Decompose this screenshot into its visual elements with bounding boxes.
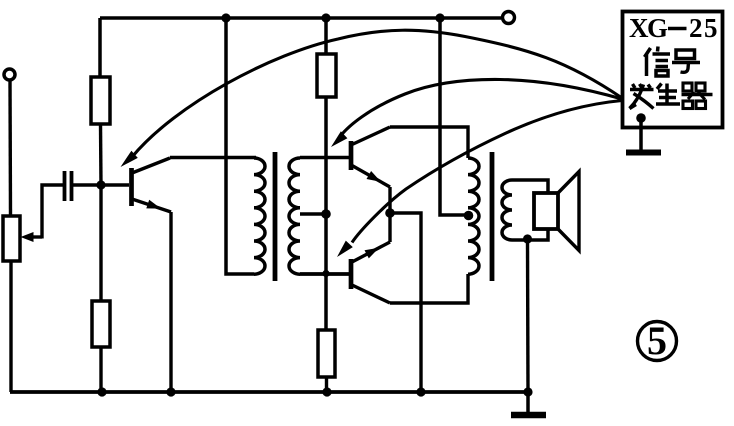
battery terminal circle xyxy=(503,12,515,24)
ground symbol xyxy=(511,392,546,415)
node center tap xyxy=(321,209,331,219)
resistor R1 xyxy=(91,77,110,124)
transistor Q1 xyxy=(132,158,172,212)
generator label 生 xyxy=(656,84,680,105)
wire base node to R3 xyxy=(99,185,102,301)
wire Q3 emitter to node xyxy=(388,213,391,242)
capacitor C1 xyxy=(65,171,72,201)
potentiometer RP xyxy=(3,216,20,261)
resistor R2 xyxy=(317,54,336,97)
wire speaker return to ground rail xyxy=(526,240,530,392)
svg-text:25: 25 xyxy=(689,13,719,43)
wire Q2 collector to T2 primary top xyxy=(390,127,468,158)
transformer T2 core xyxy=(490,152,495,281)
node speaker return xyxy=(523,234,532,243)
transformer T1 core xyxy=(273,152,278,281)
transformer T1 secondary winding xyxy=(289,158,300,274)
wire rail to T2 center tap xyxy=(440,18,466,215)
wire capacitor to Q1 base xyxy=(73,183,129,186)
top power rail xyxy=(100,16,501,20)
injection arrow arc 1 (to Q1 base) xyxy=(121,30,623,167)
resistor R4 xyxy=(318,330,335,377)
node rail-emitters xyxy=(416,387,425,396)
wire R1 to base node xyxy=(99,124,103,185)
transformer T1 primary winding xyxy=(254,158,265,274)
wire potentiometer to ground rail xyxy=(9,261,12,392)
node secondary bottom crossing xyxy=(322,270,329,277)
signal generator XG-25 box xyxy=(623,12,723,128)
wire R3 to ground rail xyxy=(99,347,102,392)
node rail-Q1-emitter xyxy=(166,387,175,396)
generator label 信 xyxy=(645,47,671,77)
wire Q1 emitter to ground rail xyxy=(169,212,172,392)
node rail-R4 xyxy=(322,387,331,396)
node rail-T1 xyxy=(221,13,230,22)
node T2 center tap xyxy=(464,211,474,221)
node rail-R3 xyxy=(97,387,106,396)
wire wiper to capacitor xyxy=(42,185,63,239)
generator ground terminal xyxy=(626,113,661,152)
wire antenna to potentiometer xyxy=(8,80,12,216)
injection arrow arc 3 (to Q3 base) xyxy=(337,101,622,258)
wire rail to R1 xyxy=(98,18,102,77)
svg-text:5: 5 xyxy=(647,318,667,363)
svg-text:XG: XG xyxy=(629,13,668,43)
wire Q3 collector to T2 primary bottom xyxy=(390,274,468,303)
wire T1 secondary top to Q2 base xyxy=(300,156,349,160)
node rail-R2 xyxy=(321,13,330,22)
node rail-T2 xyxy=(435,13,444,22)
node emitters xyxy=(385,208,395,218)
injection arrow arc 2 (to Q2 base) xyxy=(331,79,622,147)
wire Q2 emitter to node xyxy=(388,187,391,213)
transformer T2 secondary winding xyxy=(502,180,512,240)
speaker LS xyxy=(534,172,579,251)
transformer T2 primary winding xyxy=(468,158,479,274)
resistor R3 xyxy=(92,301,110,347)
node Q1 base xyxy=(96,180,105,189)
transistor Q2 xyxy=(351,127,390,187)
ground rail (bottom wire) xyxy=(10,390,528,394)
node rail-ground xyxy=(523,387,532,396)
antenna terminal xyxy=(4,69,15,80)
generator label 器 xyxy=(682,83,713,109)
figure number 5 xyxy=(638,318,677,363)
wire T2 secondary bottom to speaker xyxy=(512,228,548,240)
wire rail to R2 xyxy=(324,18,328,54)
wire R2 to R4 (bias line) xyxy=(324,97,328,330)
wire R4 to ground rail xyxy=(325,377,328,392)
wire emitter node to ground rail xyxy=(390,213,421,392)
wire T1 secondary bottom to Q3 base xyxy=(300,272,349,276)
wire T2 secondary top to speaker xyxy=(512,180,548,194)
generator label 号 xyxy=(672,50,700,72)
wire rail to T1 primary bottom xyxy=(226,18,254,274)
potentiometer wiper arrow xyxy=(21,232,43,242)
wire T1 center tap xyxy=(300,212,326,216)
generator label 发 xyxy=(630,84,654,109)
wire Q1 collector to T1 primary top xyxy=(170,156,256,159)
transistor Q3 xyxy=(351,242,390,303)
